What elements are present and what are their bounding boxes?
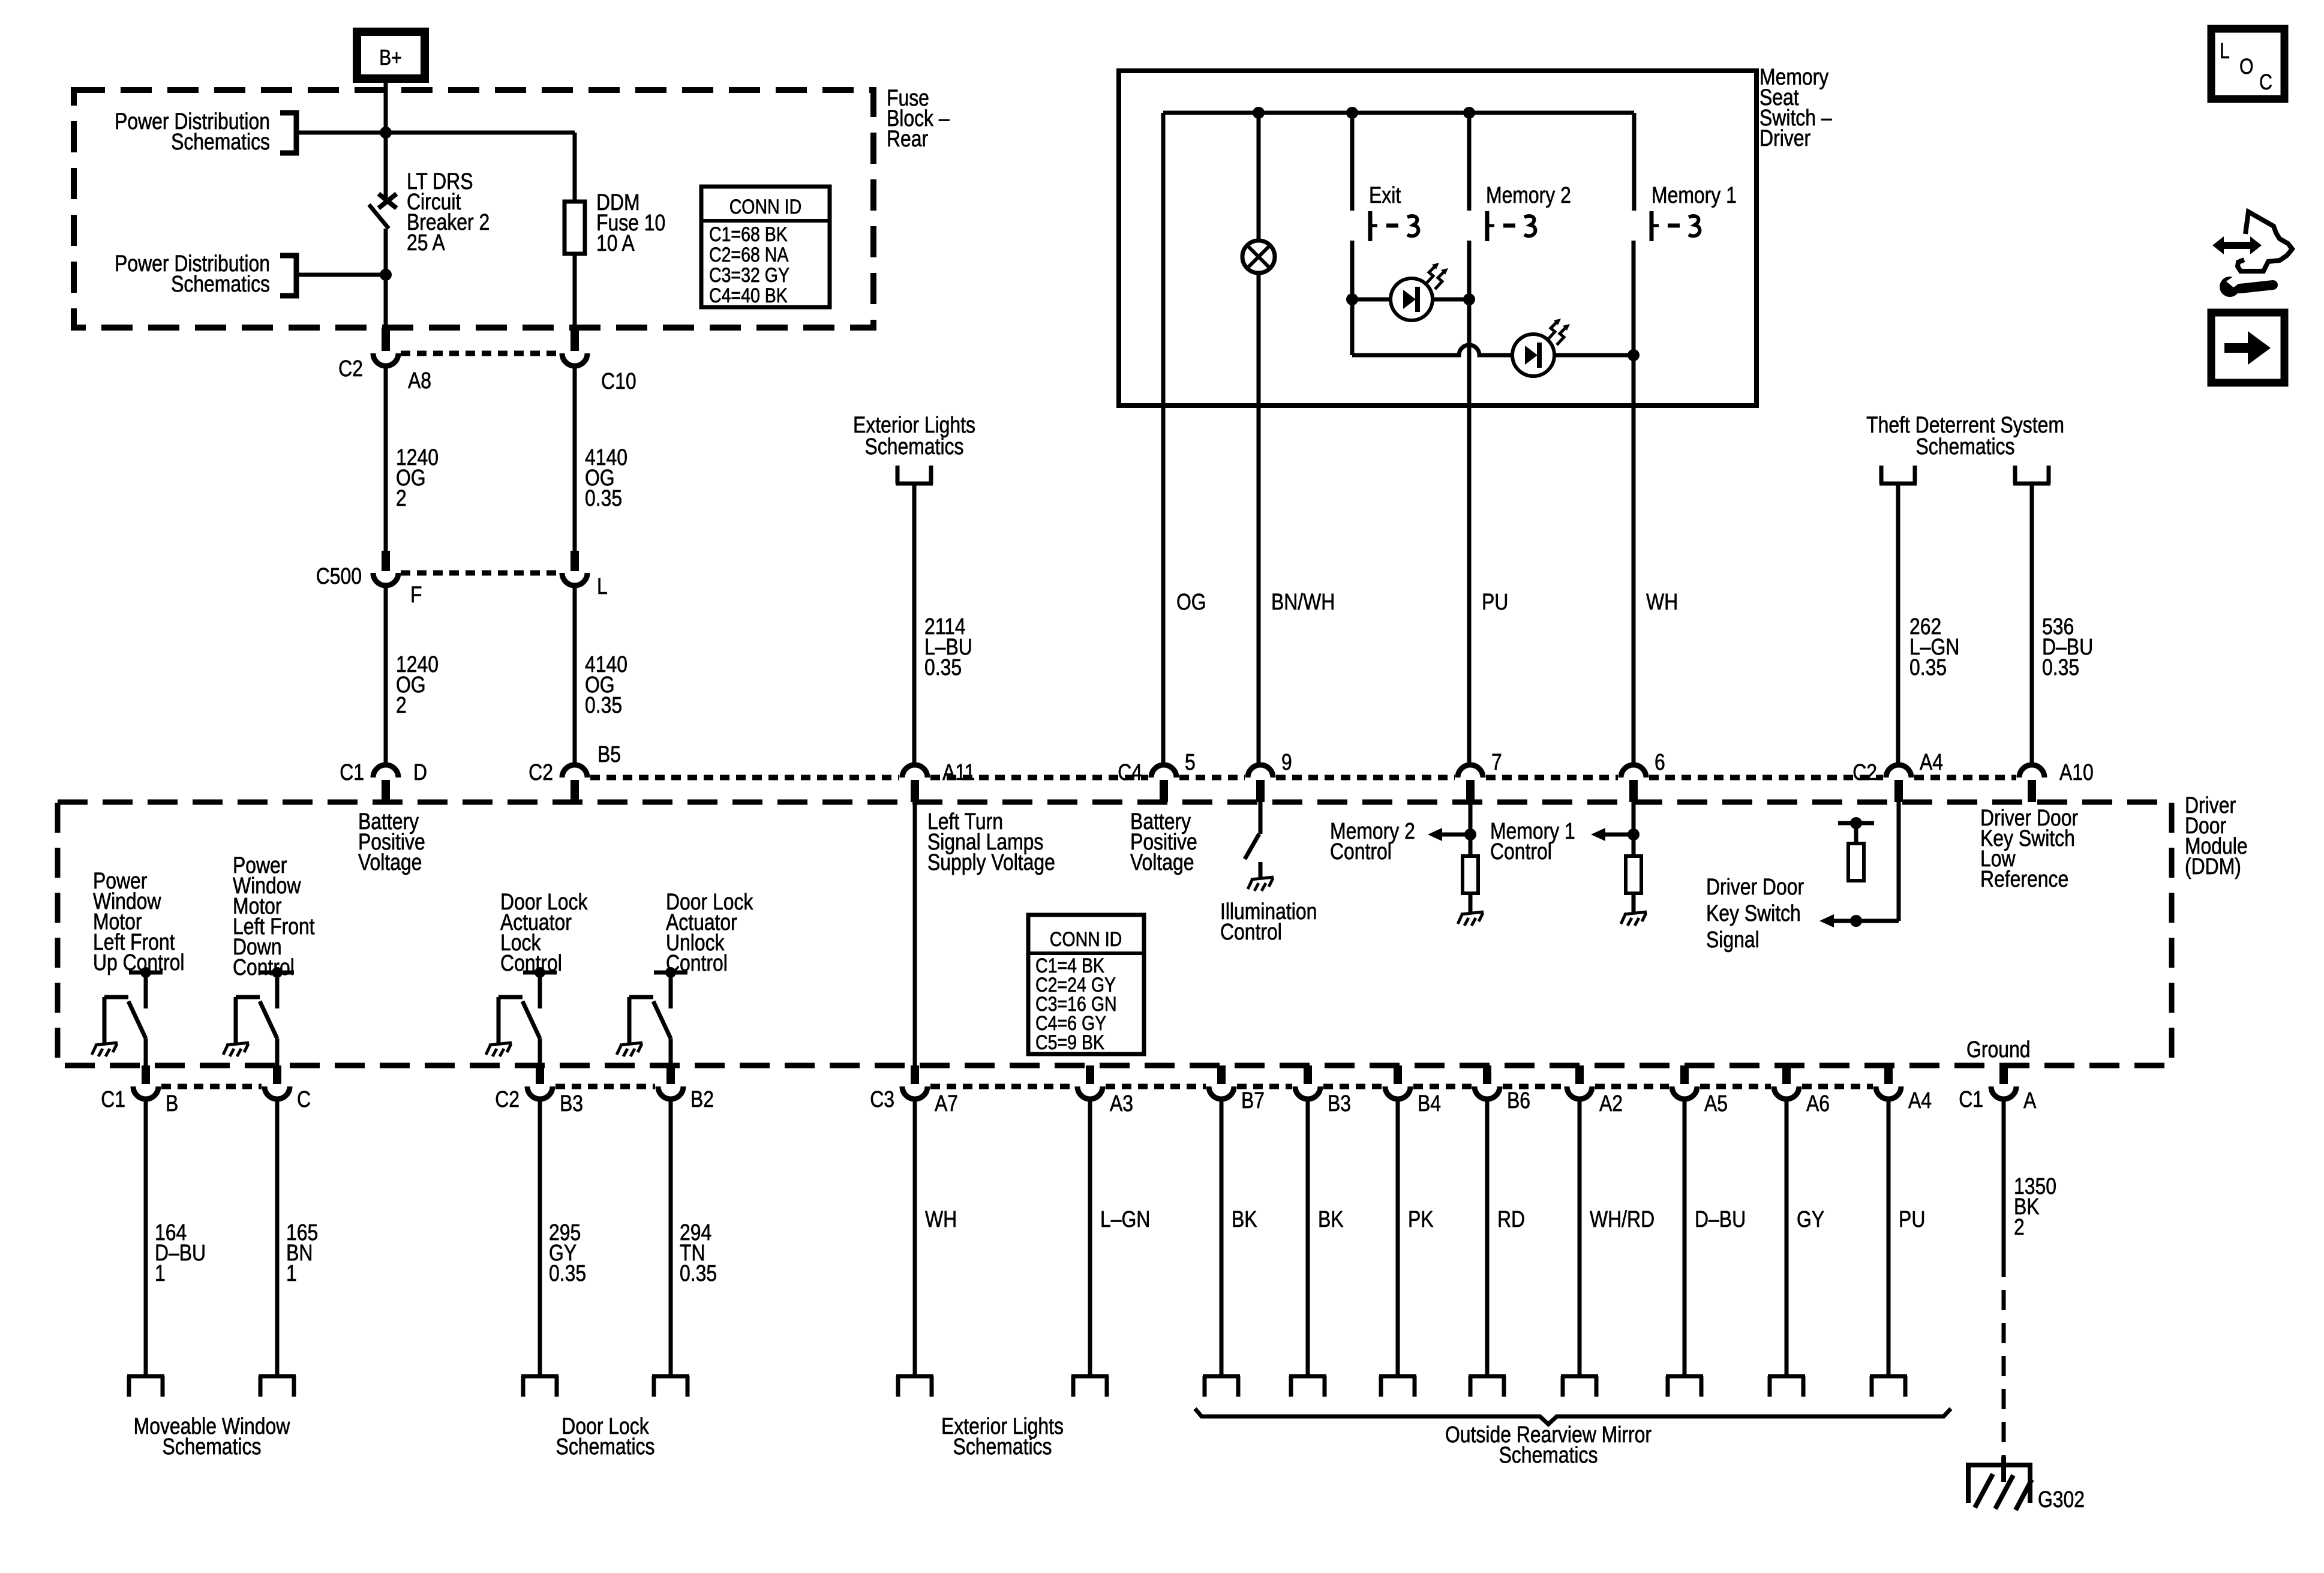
wire exit lower <box>1350 241 1355 355</box>
svg-text:BN/WH: BN/WH <box>1271 589 1335 614</box>
off-page bracket pin B4 <box>1379 1376 1416 1397</box>
connector C2 pin A8 <box>382 328 390 351</box>
wire 1350 BK 2 (pin A) to G302 <box>2002 1099 2006 1257</box>
DDM bottom pin A <box>1999 1065 2008 1084</box>
svg-text:C1: C1 <box>340 760 364 785</box>
connector dashed row F-L <box>401 571 560 576</box>
svg-text:C: C <box>297 1086 311 1112</box>
off-page bracket pin A2 <box>1561 1376 1598 1397</box>
exit LED row <box>1352 298 1469 302</box>
svg-text:BK: BK <box>1318 1206 1344 1232</box>
connector dashed row <box>1486 775 1618 781</box>
svg-text:C2: C2 <box>529 760 553 785</box>
svg-text:C4: C4 <box>1118 760 1142 785</box>
brace Outside Rearview Mirror <box>1195 1409 1951 1424</box>
svg-text:C2: C2 <box>495 1086 520 1112</box>
svg-text:C1=68 BKC2=68 NAC3=32 GYC4=40: C1=68 BKC2=68 NAC3=32 GYC4=40 BK <box>709 223 789 307</box>
connector dashed row <box>1237 1084 1292 1089</box>
arrow Memory 2 Control <box>1428 828 1442 841</box>
breaker X stroke 1 <box>379 194 397 208</box>
svg-text:CONN ID: CONN ID <box>729 196 802 218</box>
svg-text:Door LockSchematics: Door LockSchematics <box>556 1413 655 1459</box>
svg-text:B6: B6 <box>1507 1088 1530 1113</box>
DDM bottom pin B <box>142 1065 150 1084</box>
ground memory 1 <box>1621 912 1647 926</box>
svg-text:PK: PK <box>1408 1206 1434 1232</box>
wire 4140 OG 0.35 (lower) <box>573 585 577 765</box>
lower LED bus with hop <box>1352 345 1634 355</box>
ground memory 2 <box>1458 912 1484 926</box>
svg-text:BatteryPositiveVoltage: BatteryPositiveVoltage <box>358 809 425 875</box>
off-page bracket pin A4 <box>1870 1376 1907 1397</box>
wire to DDM fuse <box>573 133 577 202</box>
wire breaker to pin A8 <box>384 229 388 328</box>
wire node to DDM fuse branch <box>386 131 575 135</box>
svg-text:A8: A8 <box>408 368 431 393</box>
svg-text:C3: C3 <box>870 1086 894 1112</box>
svg-text:B+: B+ <box>379 46 402 70</box>
connector dashed row <box>1276 775 1455 781</box>
connector C10 <box>571 328 579 351</box>
switch window down driver <box>236 967 294 1065</box>
svg-text:Memory 1: Memory 1 <box>1652 182 1737 208</box>
junction B+ / fuse feed <box>380 127 392 139</box>
off-page bracket pin B2 <box>652 1376 689 1397</box>
svg-text:BK: BK <box>1232 1206 1257 1232</box>
svg-text:A5: A5 <box>1704 1091 1728 1116</box>
svg-text:C2: C2 <box>338 356 363 381</box>
svg-text:Driver DoorKey SwitchLowRefere: Driver DoorKey SwitchLowReference <box>1980 805 2078 891</box>
svg-text:A2: A2 <box>1599 1091 1623 1116</box>
DDM top pin B5 <box>562 765 587 778</box>
wire 4140 OG 0.35 (upper) <box>573 366 577 552</box>
DDM top pin 5 <box>1151 765 1176 778</box>
wire memory2 to pin 7 <box>1467 241 1472 765</box>
svg-text:5: 5 <box>1185 749 1196 775</box>
wire from pin B <box>144 1099 148 1374</box>
switch door unlock driver <box>629 967 687 1065</box>
off-page bracket pin C <box>259 1376 296 1397</box>
connector dashed row <box>1503 1084 1564 1089</box>
svg-text:GY: GY <box>1797 1206 1824 1232</box>
wire from pin A6 <box>1785 1099 1789 1374</box>
wire memory1 upper <box>1632 113 1637 211</box>
top bus wire <box>1163 111 1634 115</box>
svg-text:WH/RD: WH/RD <box>1590 1206 1655 1232</box>
internal wire A11-A7 <box>913 802 917 1065</box>
svg-text:G302: G302 <box>2038 1487 2085 1512</box>
svg-text:L–GN: L–GN <box>1100 1206 1150 1232</box>
icon service/diagnostic <box>2238 212 2292 271</box>
connector dashed row <box>161 1084 262 1089</box>
svg-text:F: F <box>410 582 422 607</box>
memory seat switch - driver box <box>1119 71 1756 406</box>
junction bus/lamp <box>1253 107 1265 119</box>
svg-text:B: B <box>166 1091 178 1116</box>
DDM bottom pin A2 <box>1575 1065 1584 1084</box>
CONN ID table (fuse block) <box>701 187 830 307</box>
svg-text:L: L <box>597 574 608 599</box>
CONN ID table (DDM) <box>1028 915 1144 1054</box>
svg-text:Exit: Exit <box>1369 182 1401 208</box>
DDM top pin 9 <box>1248 765 1273 778</box>
resistor memory 2 <box>1463 856 1478 893</box>
svg-text:B5: B5 <box>597 742 621 767</box>
connector dashed row <box>1106 1084 1206 1089</box>
connector dashed row <box>556 1084 655 1089</box>
junction bus/memory2 <box>1463 107 1475 119</box>
svg-text:B7: B7 <box>1241 1088 1265 1113</box>
svg-text:Ground: Ground <box>1966 1037 2030 1062</box>
svg-text:BatteryPositiveVoltage: BatteryPositiveVoltage <box>1130 809 1197 875</box>
wire 536 D-BU 0.35 <box>2030 484 2034 765</box>
switch window up driver <box>104 967 163 1065</box>
svg-text:Exterior LightsSchematics: Exterior LightsSchematics <box>941 1413 1064 1459</box>
svg-text:C2: C2 <box>1852 760 1877 785</box>
svg-text:WH: WH <box>925 1206 957 1232</box>
icon forward arrow box <box>2211 313 2284 383</box>
illumination control switch <box>1259 802 1263 834</box>
connector C500 pin L <box>571 551 579 571</box>
wire B+ to breaker <box>384 79 388 198</box>
connector dashed row <box>590 775 899 781</box>
wire from pin A5 <box>1683 1099 1687 1374</box>
tab bracket 1 <box>280 113 296 153</box>
breaker X stroke 2 <box>379 194 397 208</box>
svg-text:B3: B3 <box>560 1091 583 1116</box>
wire from pin B3 <box>538 1099 542 1374</box>
connector dashed row <box>1413 1084 1472 1089</box>
svg-text:WH: WH <box>1646 589 1678 614</box>
connector dashed row <box>930 1084 1074 1089</box>
fuse block - rear dashed box <box>74 90 873 328</box>
svg-text:D: D <box>413 760 427 785</box>
DDM bottom pin B6 <box>1483 1065 1491 1084</box>
svg-text:A: A <box>2023 1088 2037 1113</box>
wire from pin A4 <box>1887 1099 1891 1374</box>
DDM top pin A11 <box>902 765 927 778</box>
resistor memory 1 <box>1626 856 1641 893</box>
wire exit upper <box>1350 113 1355 211</box>
illumination blade <box>1245 834 1259 859</box>
svg-text:RD: RD <box>1497 1206 1525 1232</box>
DDM bottom pin A4 <box>1884 1065 1893 1084</box>
svg-text:A4: A4 <box>1920 749 1943 775</box>
svg-text:O: O <box>2239 55 2254 79</box>
LED exit indicator <box>1391 263 1448 320</box>
off-page bracket pin A7 <box>896 1376 933 1397</box>
connector dashed row <box>1802 1084 1873 1089</box>
connector dashed row <box>930 775 1148 781</box>
off-page bracket pin A6 <box>1768 1376 1805 1397</box>
breaker blade <box>369 205 389 229</box>
wire from pin B7 <box>1220 1099 1224 1374</box>
wire tab2 to breaker wire <box>296 273 386 277</box>
wire OG branch (pin 5) <box>1161 113 1166 765</box>
svg-text:PU: PU <box>1899 1206 1925 1232</box>
connector dashed row <box>1914 775 2016 781</box>
svg-text:A7: A7 <box>935 1091 958 1116</box>
key switch internal bar <box>1838 821 1874 825</box>
switch door lock driver <box>499 967 557 1065</box>
connector dashed row <box>1179 775 1245 781</box>
off-page bracket pin A5 <box>1666 1376 1703 1397</box>
wire 1240 OG 2 (lower) <box>384 585 388 765</box>
connector dashed row <box>1700 1084 1771 1089</box>
driver door key switch sense circuit <box>1897 802 1901 921</box>
svg-text:C: C <box>2259 71 2272 95</box>
svg-text:B3: B3 <box>1328 1091 1351 1116</box>
svg-text:OG: OG <box>1176 589 1206 614</box>
DDM bottom pin A3 <box>1086 1065 1094 1084</box>
svg-text:D–BU: D–BU <box>1695 1206 1746 1232</box>
svg-text:A4: A4 <box>1908 1088 1932 1113</box>
svg-text:C500: C500 <box>316 563 362 589</box>
connector dashed row <box>1649 775 1883 781</box>
arrow Memory 1 Control <box>1591 828 1605 841</box>
svg-text:6: 6 <box>1655 749 1665 775</box>
svg-text:A3: A3 <box>1110 1091 1133 1116</box>
Driver Door Module (DDM) dashed box <box>58 802 2172 1065</box>
svg-text:CONN ID: CONN ID <box>1050 928 1122 951</box>
svg-text:C10: C10 <box>601 368 636 394</box>
DDM bottom pin C <box>273 1065 281 1084</box>
wire BN/WH branch (pin 9) <box>1257 113 1261 765</box>
svg-text:Memory 2: Memory 2 <box>1486 182 1571 208</box>
DDM bottom pin A5 <box>1680 1065 1689 1084</box>
resistor key switch pull-up <box>1848 843 1864 881</box>
Memory 2 switch <box>1487 211 1535 241</box>
wire from pin A2 <box>1578 1099 1582 1374</box>
connector dashed row A8-C10 <box>401 351 560 356</box>
wire tab1 to node <box>296 131 386 135</box>
DDM bottom pin A7 <box>911 1065 919 1084</box>
off-page bracket pin B3 <box>1289 1376 1326 1397</box>
connector dashed row <box>1595 1084 1669 1089</box>
DDM top pin A10 <box>2019 765 2044 778</box>
wire from pin B6 <box>1485 1099 1490 1374</box>
wire 262 L-GN 0.35 <box>1896 484 1900 765</box>
off-page bracket pin B <box>127 1376 164 1397</box>
svg-text:L: L <box>2220 40 2230 64</box>
off-page bracket pin B3 <box>521 1376 559 1397</box>
off-page bracket pin B7 <box>1203 1376 1240 1397</box>
fuse body DDM Fuse 10 <box>565 202 585 254</box>
memory 1 control output <box>1632 802 1636 856</box>
DDM bottom pin B2 <box>666 1065 675 1084</box>
ground illumination <box>1248 877 1274 891</box>
svg-text:C1: C1 <box>1959 1086 1983 1112</box>
wire from pin B2 <box>669 1099 673 1374</box>
svg-text:B2: B2 <box>690 1086 714 1112</box>
svg-text:9: 9 <box>1281 749 1292 775</box>
wire from pin B4 <box>1396 1099 1400 1374</box>
B+ power symbol box <box>357 32 425 79</box>
junction bus/exit <box>1346 107 1358 119</box>
DDM bottom pin B7 <box>1217 1065 1226 1084</box>
off-page bracket pin B6 <box>1469 1376 1506 1397</box>
junction breaker wire / tab2 <box>380 269 392 281</box>
svg-text:7: 7 <box>1491 749 1502 775</box>
wire memory1 to pin 6 <box>1632 241 1636 765</box>
wire from pin C <box>275 1099 280 1374</box>
connector C500 pin F <box>382 551 390 571</box>
svg-text:A6: A6 <box>1806 1091 1830 1116</box>
wire memory2 upper <box>1467 113 1472 211</box>
svg-text:PU: PU <box>1482 589 1508 614</box>
DDM bottom pin B3 <box>536 1065 544 1084</box>
wire 1240 OG 2 (upper) <box>384 366 388 552</box>
DDM bottom pin B3 <box>1304 1065 1312 1084</box>
memory 2 control output <box>1469 802 1473 856</box>
wire fuse to pin C10 <box>573 254 577 328</box>
wire from pin B3 <box>1306 1099 1310 1374</box>
svg-text:Exterior LightsSchematics: Exterior LightsSchematics <box>853 412 975 459</box>
ground G302 <box>1966 1457 2032 1510</box>
DDM bottom pin A6 <box>1782 1065 1791 1084</box>
connector dashed row <box>1323 1084 1382 1089</box>
DDM top pin A4 <box>1886 765 1911 778</box>
tab bracket 2 <box>280 256 296 296</box>
arrow Driver Door Key Switch Signal <box>1819 914 1834 927</box>
Memory 1 switch <box>1652 211 1700 241</box>
svg-text:B4: B4 <box>1418 1091 1441 1116</box>
DDM top pin 6 <box>1621 765 1646 778</box>
svg-text:A11: A11 <box>942 760 975 785</box>
svg-text:C1: C1 <box>101 1086 125 1112</box>
wire from pin A3 <box>1088 1099 1092 1374</box>
LED memory indicator <box>1512 319 1570 376</box>
wire 2114 L-BU 0.35 <box>912 484 917 765</box>
svg-text:A10: A10 <box>2059 760 2094 785</box>
wire from pin A7 <box>913 1099 917 1374</box>
DDM top pin 7 <box>1458 765 1483 778</box>
icon LOC box <box>2211 29 2284 99</box>
DDM bottom pin B4 <box>1394 1065 1402 1084</box>
off-page bracket pin A3 <box>1071 1376 1109 1397</box>
DDM top pin D <box>373 765 398 778</box>
